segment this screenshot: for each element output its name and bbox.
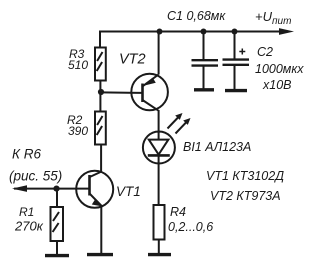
- wire: VT1 emitter to ground: [100, 206, 102, 254]
- wire: +U power rail: [99, 31, 288, 33]
- svg-text:VT2: VT2: [119, 52, 146, 68]
- label К R6 (рис. 55): [9, 147, 62, 184]
- svg-text:0,2...0,6: 0,2...0,6: [168, 220, 213, 234]
- LED BI1 (АЛ123А): [143, 132, 175, 165]
- label R3 510: [68, 47, 88, 72]
- resistor R4: [154, 205, 165, 240]
- resistor R1: [51, 189, 64, 254]
- light emission arrow 2: [176, 118, 191, 134]
- label C2: [255, 45, 304, 92]
- label R4 value: [168, 205, 213, 234]
- svg-text:270к: 270к: [14, 219, 44, 234]
- node: base/R1 junction: [53, 186, 59, 192]
- svg-text:К R6: К R6: [12, 147, 41, 162]
- svg-text:+U: +U: [255, 9, 273, 24]
- ground: under R4: [148, 253, 171, 256]
- wire: rail left corner drop to R3: [99, 31, 101, 48]
- node: rail junction to VT2 emitter: [157, 29, 163, 35]
- svg-text:С2: С2: [257, 45, 273, 59]
- svg-text:1000мкх: 1000мкх: [255, 62, 304, 76]
- capacitor C2 (polar): [223, 32, 250, 91]
- wire: node A to VT2 base: [101, 91, 142, 94]
- wire: VT2 collector to LED: [158, 110, 160, 133]
- node A: R3/R2/VT2 base junction: [98, 89, 104, 95]
- svg-text:VT1: VT1: [116, 184, 141, 199]
- svg-text:ВI1 АЛ123А: ВI1 АЛ123А: [183, 140, 251, 154]
- resistor R3: [95, 48, 106, 81]
- svg-text:R1: R1: [19, 205, 34, 219]
- ground: under C2: [225, 89, 247, 92]
- svg-text:пит: пит: [272, 16, 291, 27]
- wire: VT2 emitter to rail: [158, 32, 160, 75]
- wire: R4 to ground: [158, 240, 160, 254]
- svg-text:510: 510: [68, 58, 88, 72]
- svg-text:х10В: х10В: [262, 78, 292, 92]
- svg-text:VT1 КТ3102Д: VT1 КТ3102Д: [206, 169, 284, 183]
- transistor VT1 (NPN, KT3102Д): [76, 171, 113, 208]
- svg-text:R4: R4: [170, 205, 186, 219]
- transistor VT2 (PNP, KT973A): [131, 74, 168, 111]
- node: rail junction to C2: [232, 29, 238, 35]
- wire: VT1 base line: [14, 188, 90, 190]
- capacitor C1: [192, 32, 219, 90]
- arrowhead: to R6 (off page): [12, 185, 27, 192]
- wire: R2 bottom to VT1 collector: [100, 145, 102, 173]
- ground: under C1: [194, 88, 214, 91]
- arrowhead on power rail: [279, 28, 294, 35]
- label R1 270к: [14, 205, 44, 234]
- light emission arrow 1: [168, 113, 183, 129]
- node: rail junction to C1: [201, 29, 207, 35]
- svg-text:С1 0,68мк: С1 0,68мк: [167, 9, 226, 23]
- ground: under VT1: [87, 253, 113, 256]
- label R2 390: [67, 113, 88, 138]
- wire: LED cathode to R4: [158, 163, 160, 205]
- label +Uпит: [255, 9, 291, 27]
- svg-text:390: 390: [68, 124, 88, 138]
- wire: R3 bottom to node A: [99, 81, 101, 93]
- ground: under R1: [45, 254, 69, 257]
- resistor R2: [95, 92, 106, 145]
- svg-text:(рис. 55): (рис. 55): [9, 169, 62, 184]
- svg-text:VT2 КТ973А: VT2 КТ973А: [210, 189, 281, 203]
